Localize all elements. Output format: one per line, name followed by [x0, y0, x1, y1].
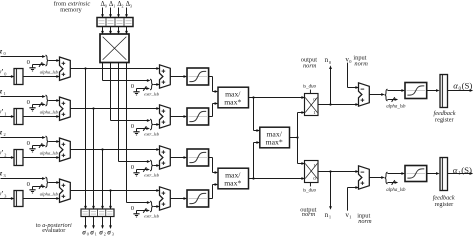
svg-text:0: 0 — [4, 51, 6, 56]
svg-text:σ: σ — [82, 229, 86, 236]
svg-text:2: 2 — [4, 152, 6, 157]
svg-text:1: 1 — [95, 232, 97, 236]
svg-text:3: 3 — [130, 4, 132, 9]
svg-text:(S): (S) — [462, 81, 473, 91]
svg-text:max*: max* — [224, 179, 241, 188]
svg-text:σ: σ — [107, 229, 111, 236]
svg-text:is_duo: is_duo — [303, 188, 317, 193]
svg-text:0: 0 — [87, 232, 89, 236]
svg-text:alpha_lsb: alpha_lsb — [386, 104, 406, 109]
svg-text:2: 2 — [104, 232, 106, 236]
svg-text:1: 1 — [349, 214, 351, 219]
svg-text:register: register — [435, 201, 454, 208]
svg-text:alpha_lsb: alpha_lsb — [386, 188, 406, 193]
svg-text:γ′: γ′ — [0, 149, 3, 157]
svg-text:register: register — [435, 117, 454, 124]
svg-text:1: 1 — [4, 111, 6, 116]
svg-text:3: 3 — [112, 232, 114, 236]
svg-text:norm: norm — [302, 211, 316, 218]
svg-text:γ′: γ′ — [0, 68, 3, 76]
svg-text:1: 1 — [329, 214, 331, 219]
svg-text:γ′: γ′ — [0, 108, 3, 116]
svg-text:alpha_lsb: alpha_lsb — [40, 150, 59, 155]
svg-text:extr_lsb: extr_lsb — [144, 214, 160, 219]
svg-text:2: 2 — [122, 4, 124, 9]
svg-text:extr_lsb: extr_lsb — [144, 92, 160, 97]
svg-text:alpha_lsb: alpha_lsb — [40, 69, 59, 74]
svg-text:0: 0 — [4, 71, 6, 76]
svg-text:α: α — [453, 165, 458, 175]
svg-text:max*: max* — [224, 98, 241, 107]
svg-text:alpha_lsb: alpha_lsb — [40, 109, 59, 114]
svg-text:norm: norm — [358, 218, 372, 225]
svg-text:3: 3 — [4, 193, 6, 198]
svg-text:1: 1 — [113, 4, 115, 9]
svg-text:γ′: γ′ — [0, 190, 3, 198]
svg-text:evaluator: evaluator — [42, 227, 65, 234]
svg-text:3: 3 — [4, 173, 6, 178]
svg-text:max*: max* — [266, 138, 283, 147]
svg-text:σ: σ — [99, 229, 103, 236]
svg-text:extr_lsb: extr_lsb — [144, 132, 160, 137]
svg-text:σ: σ — [90, 229, 94, 236]
svg-text:extr_lsb: extr_lsb — [144, 173, 160, 178]
svg-text:α: α — [453, 81, 458, 91]
svg-text:norm: norm — [354, 60, 368, 67]
svg-text:is_duo: is_duo — [303, 84, 317, 89]
svg-text:2: 2 — [4, 132, 6, 137]
svg-text:0: 0 — [105, 4, 107, 9]
svg-text:norm: norm — [303, 62, 317, 69]
svg-text:memory: memory — [60, 6, 82, 13]
svg-text:(S): (S) — [461, 165, 472, 175]
svg-text:alpha_lsb: alpha_lsb — [40, 191, 59, 196]
svg-text:1: 1 — [4, 91, 6, 96]
